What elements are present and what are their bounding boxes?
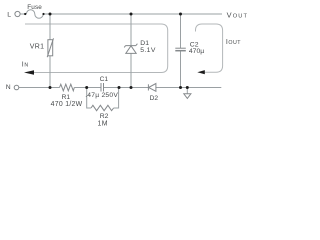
svg-text:470µ: 470µ: [189, 48, 204, 55]
svg-text:N: N: [6, 84, 11, 91]
svg-text:.47µ 250V: .47µ 250V: [85, 92, 118, 99]
svg-text:D1: D1: [140, 40, 149, 47]
svg-text:D2: D2: [150, 95, 159, 102]
svg-text:470 1/2W: 470 1/2W: [51, 101, 83, 108]
svg-text:L: L: [7, 12, 11, 19]
svg-text:1M: 1M: [98, 121, 108, 128]
svg-text:VOUT: VOUT: [227, 11, 249, 20]
svg-text:C1: C1: [100, 76, 109, 83]
svg-text:5.1V: 5.1V: [140, 47, 156, 54]
svg-text:Fuse: Fuse: [27, 4, 42, 11]
svg-text:IN: IN: [22, 61, 29, 68]
svg-text:VR1: VR1: [30, 44, 45, 51]
svg-text:R2: R2: [100, 113, 109, 120]
svg-text:IOUT: IOUT: [226, 39, 241, 46]
svg-text:R1: R1: [62, 94, 71, 101]
